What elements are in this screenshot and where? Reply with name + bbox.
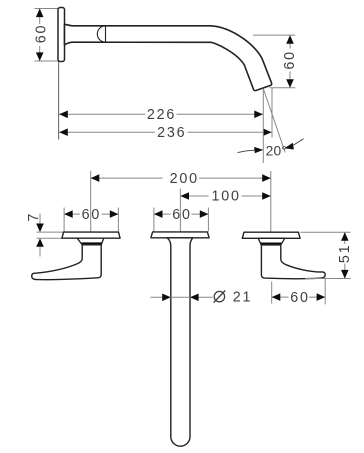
right handle neck <box>258 238 285 245</box>
svg-text:51: 51 <box>337 244 353 264</box>
left handle lever <box>32 245 102 280</box>
left handle neck <box>77 238 104 245</box>
svg-text:60: 60 <box>82 207 102 223</box>
angle 20 left arrow + tail <box>254 147 263 153</box>
20 degree slant line <box>263 89 285 153</box>
dim 60 (left fixture) arrows <box>64 210 118 218</box>
joint half-ellipse on spout <box>97 26 105 42</box>
svg-text:226: 226 <box>147 107 176 123</box>
svg-text:60: 60 <box>172 207 192 223</box>
centerline left fixture <box>90 171 92 232</box>
dim 60 (right of spout) extension + dim lines <box>253 35 295 88</box>
right handle neck shadow band <box>261 242 282 244</box>
dim 226 arrows <box>59 111 263 119</box>
dim 200 line <box>91 177 271 179</box>
dim 51 extension + dim lines <box>301 232 351 278</box>
left handle neck shadow band <box>82 242 102 244</box>
middle plate (spout escutcheon side view) <box>151 232 209 238</box>
middle cone + supply tube (one outline) <box>167 238 193 446</box>
dim 60 (bottom right) arrows <box>272 293 326 301</box>
dim diameter 21 arrows <box>162 294 198 302</box>
dim 60 (right of spout) arrows <box>286 35 294 88</box>
dim 7 extension lines (plate edge lines extended left) <box>37 214 64 257</box>
dim 51 arrows <box>341 232 349 278</box>
dim 236 line <box>59 131 271 133</box>
angle 20 right arrow + tail <box>284 143 294 150</box>
wall line <box>58 62 60 140</box>
svg-text:60: 60 <box>282 50 298 70</box>
outlet vertical reference line (226 / angle vertex) <box>262 90 264 164</box>
centerline middle fixture <box>179 189 181 232</box>
dim 226 line <box>59 113 263 115</box>
dim diameter 21 line <box>151 296 213 298</box>
centerline right fixture <box>270 171 272 232</box>
wall plate (escutcheon side view) <box>58 8 65 62</box>
svg-text:60: 60 <box>33 24 49 44</box>
236 extension line at spout outer corner <box>271 88 273 138</box>
dim 60 (middle fixture) extension + dim lines <box>154 208 209 232</box>
svg-text:60: 60 <box>290 290 310 306</box>
dim 60 (bottom right) extension + dim lines <box>272 278 326 305</box>
svg-text:21: 21 <box>233 289 253 305</box>
right plate (handle escutcheon side view) <box>242 232 300 238</box>
dim 236 arrows <box>59 128 271 136</box>
dim 60 (middle fixture) arrows <box>154 210 209 218</box>
svg-text:200: 200 <box>170 171 199 187</box>
dim 60 (top left) arrows <box>36 9 44 62</box>
right handle lever <box>261 245 325 279</box>
svg-text:20°: 20° <box>266 144 287 159</box>
dim 7 arrows <box>36 224 44 247</box>
dim 200 arrows <box>91 174 271 182</box>
svg-text:236: 236 <box>157 125 186 141</box>
svg-text:7: 7 <box>26 212 42 222</box>
diameter symbol <box>214 291 226 303</box>
left plate (handle escutcheon side view) <box>62 232 120 238</box>
dim 60 (top left) extension + dim lines <box>35 9 59 62</box>
dim 100 arrows <box>180 192 270 200</box>
dim 100 line <box>180 195 270 197</box>
svg-text:100: 100 <box>211 189 240 205</box>
dim 60 (left fixture) extension + dim lines <box>64 208 118 233</box>
spout body <box>65 24 272 90</box>
